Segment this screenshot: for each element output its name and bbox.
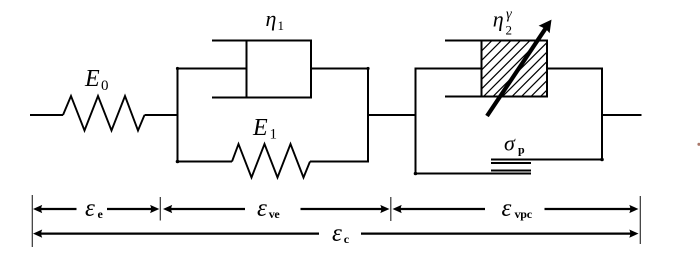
friction slider top plate short line xyxy=(491,162,531,164)
label eps_vpc xyxy=(502,195,533,222)
dimension delimiter 1 xyxy=(31,195,33,247)
spring E0 xyxy=(63,96,145,131)
wire: Kelvin to VP group xyxy=(368,114,416,116)
wire: dashpot rod left xyxy=(178,68,247,70)
label sigma_p xyxy=(504,130,525,156)
wire: dashpot rod right xyxy=(311,68,368,70)
dim eps_ve left segment with arrowhead xyxy=(163,205,245,213)
spring E1 xyxy=(232,144,310,178)
wire: left terminal xyxy=(30,114,63,116)
junction dot VP left bar bottom xyxy=(414,172,418,176)
dimension delimiter 2 xyxy=(159,197,161,221)
junction dot VP right bar bottom xyxy=(600,158,604,162)
svg-text:vpc: vpc xyxy=(515,207,533,221)
svg-text:1: 1 xyxy=(278,18,285,33)
svg-text:2: 2 xyxy=(506,23,513,38)
label eta2^gamma xyxy=(493,6,513,37)
dim eps_vpc left segment with arrowhead xyxy=(393,205,486,213)
dim eps_ve right segment with arrowhead xyxy=(301,205,390,213)
junction dot left bar bottom xyxy=(176,160,180,164)
svg-text:c: c xyxy=(344,232,350,246)
label eta1 xyxy=(266,6,285,33)
eta2 cylinder wall top xyxy=(445,40,482,42)
friction slider sigma_p top plate long line xyxy=(491,159,603,161)
friction slider bottom plate long line xyxy=(416,173,532,175)
wire: eta2 rod left xyxy=(416,68,482,70)
eta2 hatched box xyxy=(425,39,598,98)
svg-text:σ: σ xyxy=(504,130,516,155)
label E1 xyxy=(252,115,277,142)
svg-text:η: η xyxy=(493,6,504,31)
dim eps_c right segment with arrowhead xyxy=(361,230,639,238)
label eps_ve xyxy=(257,195,280,222)
eta2 cylinder wall bottom xyxy=(445,96,482,98)
dim eps_c left segment with arrowhead xyxy=(33,230,319,238)
dimension delimiter 4 xyxy=(639,196,641,244)
dashpot U1 piston plate xyxy=(246,41,248,98)
wire: Kelvin bottom left xyxy=(178,161,233,163)
svg-text:E: E xyxy=(252,115,268,141)
svg-text:ve: ve xyxy=(269,207,281,221)
svg-text:ε: ε xyxy=(85,195,95,222)
stray mark xyxy=(697,143,700,146)
svg-text:γ: γ xyxy=(506,6,513,22)
node: VP right bar xyxy=(601,69,603,160)
wire: E0 to Kelvin node xyxy=(145,114,178,116)
friction slider bottom plate short line xyxy=(491,170,531,172)
svg-text:ε: ε xyxy=(502,195,512,222)
svg-text:p: p xyxy=(518,143,525,157)
node: Kelvin left bar xyxy=(177,69,179,162)
node: Kelvin right bar xyxy=(367,69,369,162)
node: VP left bar xyxy=(415,69,417,174)
svg-text:ε: ε xyxy=(257,195,267,222)
svg-text:0: 0 xyxy=(101,78,109,94)
svg-text:1: 1 xyxy=(270,127,278,143)
dim eps_e left segment with arrowhead xyxy=(33,205,77,213)
dimension delimiter 3 xyxy=(390,197,392,221)
junction dot right bar top xyxy=(366,67,369,70)
dim eps_e right segment with arrowhead xyxy=(107,205,159,213)
svg-text:E: E xyxy=(84,66,100,92)
dashpot U1 cylinder xyxy=(212,41,311,98)
junction dot left bar top xyxy=(176,67,179,70)
svg-text:ε: ε xyxy=(332,220,342,247)
label E0 xyxy=(84,66,109,94)
wire: right terminal xyxy=(602,114,642,116)
wire: Kelvin bottom right xyxy=(310,161,368,163)
svg-text:e: e xyxy=(98,207,104,221)
label eps_c xyxy=(332,220,350,247)
dim eps_vpc right segment with arrowhead xyxy=(545,205,639,213)
svg-text:η: η xyxy=(266,6,277,31)
wire: eta2 rod right xyxy=(547,68,602,70)
label eps_e xyxy=(85,195,104,222)
arrow through eta2 (nonlinearity) xyxy=(487,20,552,116)
